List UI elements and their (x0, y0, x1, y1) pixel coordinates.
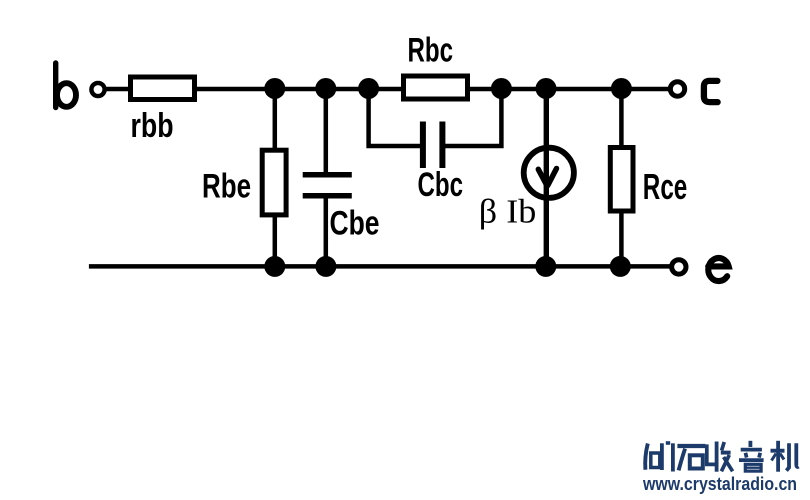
svg-text:Cbe: Cbe (330, 205, 380, 243)
svg-text:Rce: Rce (643, 166, 688, 207)
svg-text:Rbe: Rbe (202, 167, 251, 205)
svg-text:www.crystalradio.cn: www.crystalradio.cn (642, 473, 797, 494)
svg-text:β Ib: β Ib (479, 193, 537, 230)
svg-text:rbb: rbb (131, 107, 174, 145)
svg-text:Rbc: Rbc (408, 32, 454, 70)
svg-text:Cbc: Cbc (418, 166, 464, 204)
